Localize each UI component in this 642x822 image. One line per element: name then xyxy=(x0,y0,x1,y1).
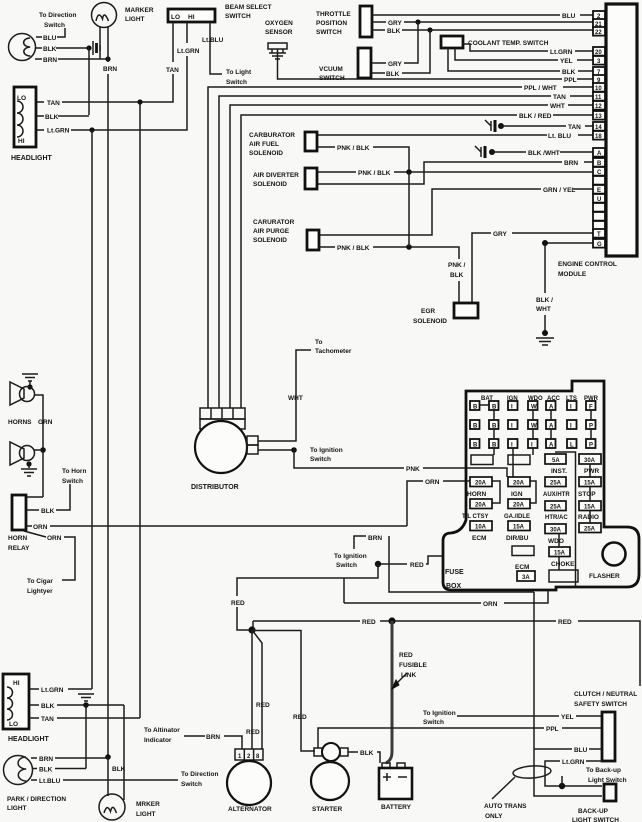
ground below horn 2 xyxy=(21,461,37,476)
svg-text:PPL: PPL xyxy=(546,726,559,733)
svg-text:ECM: ECM xyxy=(472,535,486,542)
wire TAN from beam select LO xyxy=(36,22,179,107)
alternator terminal strip xyxy=(235,749,263,760)
svg-text:To Ignition: To Ignition xyxy=(334,553,367,560)
wire RED to alternator terminal 2 xyxy=(246,630,260,749)
svg-text:Lightyer: Lightyer xyxy=(27,588,53,595)
wire BRN pin B to air diverter solenoid xyxy=(317,160,593,184)
svg-text:COOLANT TEMP. SWITCH: COOLANT TEMP. SWITCH xyxy=(468,40,549,47)
wire BLK from lamp to junction xyxy=(35,45,92,53)
svg-text:HI: HI xyxy=(188,14,195,21)
label ENGINE CONTROL MODULE xyxy=(558,261,617,278)
svg-text:BRN: BRN xyxy=(206,734,220,741)
label PARK / DIRECTION LIGHT xyxy=(7,796,66,812)
svg-text:BOX: BOX xyxy=(446,583,462,590)
svg-text:To Direction: To Direction xyxy=(39,12,76,19)
svg-text:15A: 15A xyxy=(584,504,596,510)
svg-text:GRY: GRY xyxy=(388,61,403,68)
svg-text:13: 13 xyxy=(595,114,602,120)
svg-text:LO: LO xyxy=(9,721,18,728)
svg-text:20A: 20A xyxy=(475,502,487,508)
svg-text:RELAY: RELAY xyxy=(8,545,30,552)
wire BLU throttle to pin 2 xyxy=(372,13,593,20)
svg-text:ORN: ORN xyxy=(47,535,62,542)
svg-text:AIR DIVERTER: AIR DIVERTER xyxy=(253,172,299,179)
svg-text:To Ignition: To Ignition xyxy=(310,447,343,454)
svg-text:AIR PURGE: AIR PURGE xyxy=(253,228,290,235)
ECM pin connector column xyxy=(593,11,605,248)
svg-text:RED: RED xyxy=(399,652,413,659)
fuse labels xyxy=(462,468,599,571)
red fusible link to battery xyxy=(386,621,427,763)
svg-text:Indicator: Indicator xyxy=(144,737,172,744)
svg-text:WHT: WHT xyxy=(288,395,303,402)
svg-text:PWR: PWR xyxy=(584,468,599,475)
inline connector and wire TAN pin 14 xyxy=(485,120,593,132)
svg-text:Switch: Switch xyxy=(423,719,444,726)
wire ORN to cigar lighter xyxy=(24,531,75,595)
wire YEL coolant to pin 3 xyxy=(455,48,593,65)
svg-text:B: B xyxy=(473,443,478,449)
label BACK-UP LIGHT SWITCH xyxy=(572,808,619,822)
svg-text:SOLENOID: SOLENOID xyxy=(413,318,447,325)
svg-text:RED: RED xyxy=(231,600,245,607)
wire TAN lower headlight xyxy=(29,716,140,723)
svg-text:To Direction: To Direction xyxy=(181,771,218,778)
label To Back-up Light Switch xyxy=(586,767,627,784)
wire Lt.GRN lower headlight xyxy=(29,687,92,694)
svg-text:15A: 15A xyxy=(513,524,525,530)
svg-text:3A: 3A xyxy=(522,575,530,581)
svg-text:SAFETY SWITCH: SAFETY SWITCH xyxy=(574,701,627,708)
svg-text:HORN: HORN xyxy=(467,491,486,498)
svg-text:LINK: LINK xyxy=(401,672,416,679)
wire BLK lower headlight with ground xyxy=(29,694,124,710)
svg-text:BRN: BRN xyxy=(368,535,382,542)
wire BLK park light xyxy=(32,767,86,774)
svg-text:P: P xyxy=(589,443,593,449)
label PNK/BLK at EGR xyxy=(448,262,466,279)
svg-text:To Horn: To Horn xyxy=(62,468,86,475)
svg-text:RADIO: RADIO xyxy=(578,514,599,521)
label FUSE BOX xyxy=(445,569,464,590)
svg-text:TAN: TAN xyxy=(166,67,179,74)
terminal interconnect traces xyxy=(480,405,592,503)
svg-text:T/L CTSY: T/L CTSY xyxy=(462,514,489,520)
vacuum switch xyxy=(319,48,371,82)
svg-text:LIGHT SWITCH: LIGHT SWITCH xyxy=(572,817,619,822)
wire GRN horn 1 down xyxy=(34,395,46,497)
svg-text:BLU: BLU xyxy=(43,35,57,42)
wire RED main feed row xyxy=(253,617,640,686)
svg-text:20A: 20A xyxy=(513,480,525,486)
marker light right lead / BRN vertical xyxy=(103,27,117,757)
wire GRY vacuum up to GRY junction xyxy=(371,22,418,68)
svg-text:BLK: BLK xyxy=(41,703,55,710)
svg-text:W: W xyxy=(531,405,537,411)
svg-text:ORN: ORN xyxy=(483,601,498,608)
svg-text:BRN: BRN xyxy=(39,756,53,763)
svg-text:25A: 25A xyxy=(550,504,562,510)
svg-text:BATTERY: BATTERY xyxy=(381,804,412,811)
svg-text:W: W xyxy=(531,424,537,430)
svg-text:LIGHT: LIGHT xyxy=(136,811,156,818)
wire BLK headlight upper xyxy=(36,114,89,121)
svg-text:Switch: Switch xyxy=(336,562,357,569)
svg-text:F: F xyxy=(589,405,593,411)
svg-text:BRN: BRN xyxy=(43,57,57,64)
svg-text:A: A xyxy=(549,424,554,430)
svg-text:To Ignition: To Ignition xyxy=(423,710,456,717)
svg-text:30A: 30A xyxy=(584,458,596,464)
ECM module box xyxy=(606,4,637,256)
svg-text:LIGHT: LIGHT xyxy=(7,805,27,812)
clutch neutral safety switch xyxy=(602,712,615,761)
wire GRN/YEL pin E to air purge solenoid xyxy=(319,187,593,235)
svg-text:HEADLIGHT: HEADLIGHT xyxy=(11,155,53,162)
wire PPL/WHT pin 10 to distributor xyxy=(208,85,593,408)
wire TAN vertical to lower headlight xyxy=(139,102,141,718)
svg-text:SENSOR: SENSOR xyxy=(265,29,293,36)
svg-text:INST.: INST. xyxy=(551,468,567,475)
svg-text:ORN: ORN xyxy=(33,524,48,531)
wire Lt.BLU park light to direction switch xyxy=(31,771,218,788)
svg-text:TAN: TAN xyxy=(568,124,581,131)
svg-text:Switch: Switch xyxy=(62,478,83,485)
svg-text:RED: RED xyxy=(362,619,376,626)
throttle position switch xyxy=(316,6,372,37)
svg-text:RED: RED xyxy=(293,714,307,721)
svg-text:25A: 25A xyxy=(584,526,596,532)
wire BRN from lamp xyxy=(35,56,111,64)
svg-text:STOP: STOP xyxy=(578,491,596,498)
svg-text:To Light: To Light xyxy=(226,69,252,76)
svg-text:B: B xyxy=(473,424,478,430)
svg-text:RED: RED xyxy=(558,619,572,626)
svg-text:B: B xyxy=(473,405,478,411)
battery xyxy=(379,763,412,799)
wire RED to alternator terminal 8 xyxy=(252,630,270,749)
wire PNK/BLK air purge junction xyxy=(319,172,459,303)
svg-text:GRY: GRY xyxy=(493,231,508,238)
svg-text:10: 10 xyxy=(595,86,602,92)
svg-text:PNK / BLK: PNK / BLK xyxy=(358,170,391,177)
wire BLK/RED pin 13 to distributor xyxy=(241,113,593,408)
wire Lt.BLU pin 18 to air fuel solenoid xyxy=(317,133,593,140)
svg-text:5A: 5A xyxy=(552,458,560,464)
label CLUTCH / NEUTRAL SAFETY SWITCH xyxy=(574,691,637,708)
park/direction lamp top-left xyxy=(9,34,36,61)
horn 2 xyxy=(10,442,43,465)
fuse box column labels xyxy=(481,396,599,402)
wire BLK vertical to park light xyxy=(85,705,87,769)
air diverter solenoid xyxy=(253,168,317,189)
svg-text:SWITCH: SWITCH xyxy=(319,75,345,82)
wire WHT pin 12 to distributor xyxy=(230,103,593,408)
wire RED to starter xyxy=(252,631,315,752)
svg-text:IGN: IGN xyxy=(511,491,523,498)
svg-text:11: 11 xyxy=(595,95,602,101)
svg-text:CARURATOR: CARURATOR xyxy=(253,219,295,226)
svg-text:BLK: BLK xyxy=(562,69,576,76)
EGR solenoid xyxy=(413,303,478,325)
svg-text:To Altinator: To Altinator xyxy=(144,727,180,734)
wire Lt.GRN clutch switch to backup switch xyxy=(545,759,602,789)
svg-text:HI: HI xyxy=(13,680,20,687)
svg-text:FUSIBLE: FUSIBLE xyxy=(399,662,427,669)
svg-text:BLK: BLK xyxy=(386,71,400,78)
svg-text:LO: LO xyxy=(171,14,180,21)
wire YEL to clutch switch xyxy=(457,714,602,721)
svg-text:FUSE: FUSE xyxy=(445,569,464,576)
svg-text:To: To xyxy=(315,339,322,346)
svg-text:SOLENOID: SOLENOID xyxy=(249,150,283,157)
wire PNK distributor to ignition switch and fuse box xyxy=(258,447,507,477)
wire PPL starter to clutch switch xyxy=(318,726,602,748)
ground symbol below pin G wire xyxy=(536,330,554,345)
svg-text:AUX/HTR: AUX/HTR xyxy=(543,492,570,498)
svg-text:GA./IDLE: GA./IDLE xyxy=(504,514,530,520)
distributor side connector xyxy=(247,436,258,454)
park/direction lamp lower xyxy=(4,756,33,785)
svg-text:Lt.BLU: Lt.BLU xyxy=(202,37,224,44)
svg-text:BLK: BLK xyxy=(360,750,374,757)
svg-text:HTR/AC: HTR/AC xyxy=(545,515,568,521)
svg-text:ECM: ECM xyxy=(515,564,529,571)
horn 1 xyxy=(10,382,35,405)
svg-text:A: A xyxy=(549,405,554,411)
coolant temp switch xyxy=(441,36,549,48)
svg-text:BLK / RED: BLK / RED xyxy=(519,113,552,120)
label To Altinator Indicator xyxy=(144,727,180,744)
svg-text:A: A xyxy=(549,443,554,449)
svg-text:Lt.GRN: Lt.GRN xyxy=(41,687,64,694)
svg-text:Lt.BLU: Lt.BLU xyxy=(39,778,61,785)
marker light left lead xyxy=(99,27,101,59)
inline connector and wire BLK/WHT pin A xyxy=(475,146,593,158)
label BEAM SELECT SWITCH xyxy=(225,4,272,20)
auto trans only ellipse xyxy=(492,765,551,799)
wire GRY pin T to EGR solenoid xyxy=(472,231,593,303)
svg-text:TAN: TAN xyxy=(47,100,60,107)
svg-text:FLASHER: FLASHER xyxy=(589,573,620,580)
svg-text:B: B xyxy=(492,424,497,430)
wire BLK vertical to headlight xyxy=(88,48,90,115)
svg-text:TAN: TAN xyxy=(41,716,54,723)
wire BLK throttle to pin 22 xyxy=(372,27,593,35)
svg-text:15A: 15A xyxy=(584,480,596,486)
oxygen sensor xyxy=(265,20,293,62)
svg-text:B: B xyxy=(492,443,497,449)
svg-text:RED: RED xyxy=(246,729,260,736)
wire Lt.GRN vertical to lower headlight xyxy=(91,130,93,689)
beam select switch xyxy=(168,9,215,22)
wire BLK starter to battery xyxy=(348,750,380,763)
wire BRN fuse box bracket xyxy=(354,535,534,592)
wire PNK/BLK air diverter to ECM pin C xyxy=(317,169,593,177)
svg-text:PPL / WHT: PPL / WHT xyxy=(524,85,557,92)
wire PNK/BLK air fuel solenoid xyxy=(317,145,409,172)
starter body xyxy=(311,762,349,800)
svg-text:P: P xyxy=(589,424,593,430)
wire Lt.BLU from beam select to light switch xyxy=(202,22,252,86)
svg-text:OXYGEN: OXYGEN xyxy=(265,20,293,27)
label MARKER LIGHT xyxy=(125,7,154,23)
svg-text:ENGINE CONTROL: ENGINE CONTROL xyxy=(558,261,617,268)
svg-text:ORN: ORN xyxy=(425,479,440,486)
svg-text:HORNS: HORNS xyxy=(8,419,32,426)
svg-text:22: 22 xyxy=(595,30,602,36)
svg-text:30A: 30A xyxy=(550,527,562,533)
svg-text:Lt.GRN: Lt.GRN xyxy=(47,128,70,135)
label MRKER LIGHT xyxy=(136,801,160,818)
distributor cap xyxy=(200,408,245,429)
marker light lower xyxy=(99,705,126,820)
svg-text:Lt.GRN: Lt.GRN xyxy=(562,759,585,766)
svg-text:12: 12 xyxy=(595,104,602,110)
svg-text:SWITCH: SWITCH xyxy=(316,29,342,36)
svg-text:10A: 10A xyxy=(475,524,487,530)
pwr column traces xyxy=(589,464,591,523)
svg-text:CLUTCH / NEUTRAL: CLUTCH / NEUTRAL xyxy=(574,691,637,698)
svg-text:To Back-up: To Back-up xyxy=(586,767,621,774)
flasher circle xyxy=(603,543,626,566)
label To Ignition Switch (bottom) xyxy=(423,710,456,726)
alternator body xyxy=(227,761,271,805)
svg-text:25A: 25A xyxy=(550,480,562,486)
svg-text:T: T xyxy=(597,232,601,238)
distributor body xyxy=(195,421,247,473)
svg-text:TAN: TAN xyxy=(553,94,566,101)
svg-text:BLK: BLK xyxy=(41,508,55,515)
svg-text:HORN: HORN xyxy=(8,535,27,542)
svg-text:BLK: BLK xyxy=(43,46,57,53)
fuse box internal divider xyxy=(555,452,576,587)
svg-text:PNK / BLK: PNK / BLK xyxy=(337,245,370,252)
svg-text:RED: RED xyxy=(410,562,424,569)
svg-text:PNK /: PNK / xyxy=(448,262,466,269)
back-up light switch xyxy=(604,784,616,801)
svg-text:SOLENOID: SOLENOID xyxy=(253,181,287,188)
svg-text:BLK: BLK xyxy=(450,272,464,279)
svg-text:BACK-UP: BACK-UP xyxy=(578,808,609,815)
svg-text:Lt.GRN: Lt.GRN xyxy=(550,49,573,56)
svg-text:B: B xyxy=(492,405,497,411)
svg-text:ALTERNATOR: ALTERNATOR xyxy=(228,806,272,813)
label To Direction Switch (top-left) xyxy=(39,12,76,29)
ground above horn 1 xyxy=(22,374,38,390)
svg-text:LIGHT: LIGHT xyxy=(125,16,145,23)
wire BRN park light xyxy=(31,754,111,763)
wire GRY throttle to pin 21 xyxy=(372,19,593,27)
svg-text:CARBURATOR: CARBURATOR xyxy=(249,132,295,139)
wire ORN horn relay long row xyxy=(26,524,407,531)
svg-text:MRKER: MRKER xyxy=(136,801,160,808)
svg-text:HEADLIGHT: HEADLIGHT xyxy=(8,736,50,743)
label HORNS GRN xyxy=(8,419,53,426)
svg-text:BLK /WHT: BLK /WHT xyxy=(528,150,560,157)
svg-text:BLU: BLU xyxy=(574,747,588,754)
svg-text:VCUUM: VCUUM xyxy=(319,66,343,73)
svg-text:WDO: WDO xyxy=(548,538,564,545)
svg-text:20A: 20A xyxy=(513,502,525,508)
svg-text:POSITION: POSITION xyxy=(316,20,347,27)
svg-text:ONLY: ONLY xyxy=(485,813,503,820)
headlight connector lower xyxy=(3,674,29,729)
svg-text:BRN: BRN xyxy=(564,160,578,167)
svg-text:L: L xyxy=(570,443,574,449)
svg-text:BLK: BLK xyxy=(45,114,59,121)
svg-text:Lt.GRN: Lt.GRN xyxy=(177,48,200,55)
svg-text:SOLENOID: SOLENOID xyxy=(253,237,287,244)
svg-text:AIR FUEL: AIR FUEL xyxy=(249,141,279,148)
wire RED ignition to starter feed row xyxy=(231,564,378,634)
fuses with ratings xyxy=(470,454,601,581)
svg-text:THROTTLE: THROTTLE xyxy=(316,11,351,18)
svg-text:AUTO TRANS: AUTO TRANS xyxy=(484,803,527,810)
svg-text:CHOKE: CHOKE xyxy=(551,561,575,568)
wire PPL oxygen sensor to ECM pin 9 xyxy=(278,62,594,84)
svg-text:20A: 20A xyxy=(475,480,487,486)
svg-text:Lt. BLU: Lt. BLU xyxy=(548,133,571,140)
svg-text:PPL: PPL xyxy=(564,77,577,84)
svg-text:PNK / BLK: PNK / BLK xyxy=(337,145,370,152)
svg-text:YEL: YEL xyxy=(560,58,573,65)
svg-text:STARTER: STARTER xyxy=(312,806,343,813)
svg-text:BRN: BRN xyxy=(103,66,117,73)
wire TAN pin 11 to distributor xyxy=(219,94,593,408)
svg-text:WHT: WHT xyxy=(536,306,551,313)
wire RED fuse box to ignition switch xyxy=(334,553,443,569)
starter solenoid and terminals xyxy=(314,743,348,761)
svg-text:YEL: YEL xyxy=(561,714,574,721)
inline connector on marker lead xyxy=(93,41,100,55)
label HORN RELAY xyxy=(8,535,30,552)
label AUTO TRANS ONLY xyxy=(484,803,527,820)
svg-text:BLK: BLK xyxy=(112,766,126,773)
svg-text:G: G xyxy=(597,242,602,248)
svg-text:20: 20 xyxy=(595,50,602,56)
svg-text:BLU: BLU xyxy=(562,13,576,20)
svg-text:MODULE: MODULE xyxy=(558,271,587,278)
svg-text:MARKER: MARKER xyxy=(125,7,154,14)
wire BLK coolant to pin 7 xyxy=(448,48,593,76)
horn relay xyxy=(12,495,43,530)
svg-text:EGR: EGR xyxy=(421,308,435,315)
marker light xyxy=(92,3,117,28)
svg-text:DISTRIBUTOR: DISTRIBUTOR xyxy=(191,484,239,491)
svg-text:Tachometer: Tachometer xyxy=(315,348,352,355)
svg-text:BLK /: BLK / xyxy=(536,297,553,304)
carburetor air purge solenoid xyxy=(253,219,319,250)
svg-text:Switch: Switch xyxy=(44,22,65,29)
wire Lt.GRN from beam select HI xyxy=(36,22,200,135)
svg-text:PARK / DIRECTION: PARK / DIRECTION xyxy=(7,796,66,803)
svg-text:DIR/BU: DIR/BU xyxy=(506,535,529,542)
carburetor air fuel solenoid xyxy=(249,132,317,157)
svg-text:RED: RED xyxy=(256,702,270,709)
wire pin G to ground BLK/WHT xyxy=(536,240,593,331)
svg-text:WHT: WHT xyxy=(550,103,565,110)
svg-text:BLK: BLK xyxy=(39,767,53,774)
svg-text:HI: HI xyxy=(18,138,25,145)
svg-text:To Cigar: To Cigar xyxy=(27,578,53,585)
wire BLU to direction switch xyxy=(36,28,65,42)
svg-text:Switch: Switch xyxy=(310,456,331,463)
svg-text:GRN / YEL: GRN / YEL xyxy=(543,187,575,194)
wire WHT to tachometer xyxy=(258,339,352,441)
svg-text:GRN: GRN xyxy=(38,419,53,426)
